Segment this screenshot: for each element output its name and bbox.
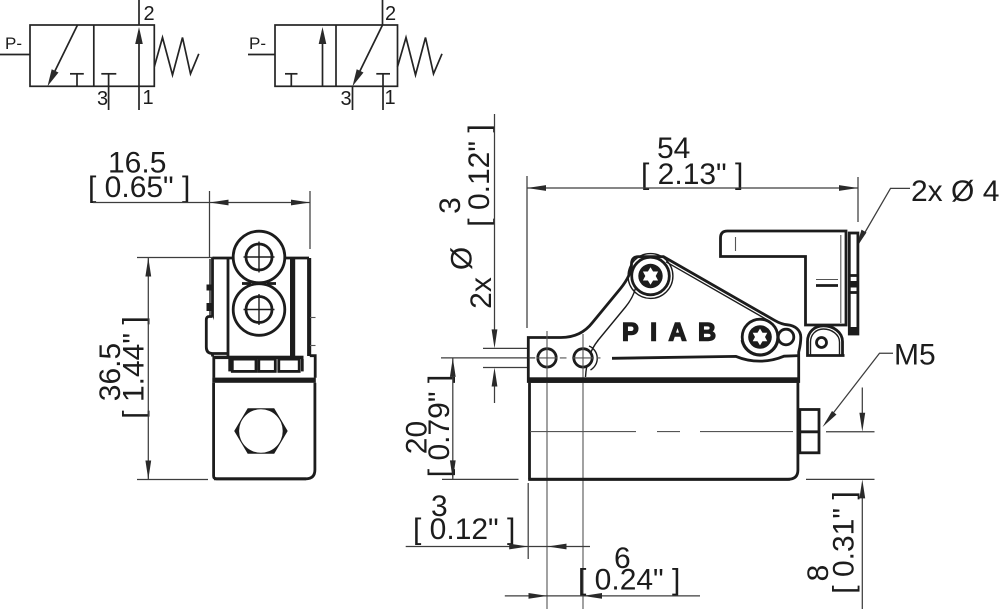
svg-text:P-: P- — [249, 34, 266, 53]
extension line 54 right — [857, 177, 859, 222]
spring — [398, 38, 443, 76]
wire P lead — [0, 54, 30, 56]
svg-text:3: 3 — [341, 88, 352, 110]
boss arc right screw — [741, 340, 778, 356]
svg-text:[ 0.31" ]: [ 0.31" ] — [828, 491, 861, 593]
foot hole — [817, 338, 827, 348]
svg-text:[ 0.65" ]: [ 0.65" ] — [88, 171, 190, 204]
right side tick A — [310, 317, 316, 319]
screw 1 inner circle — [246, 244, 272, 270]
lower block outline — [214, 383, 315, 479]
box A (top housing) — [721, 231, 847, 325]
hole 1 centerline vertical — [546, 331, 548, 609]
blocked port T (right cell) / port 1 — [376, 73, 390, 75]
screw circle 2 — [233, 284, 285, 336]
block centerline — [530, 431, 793, 433]
hole 2 centerline vertical — [582, 334, 584, 609]
lower block top band — [528, 377, 800, 383]
svg-text:[ 0.12" ]: [ 0.12" ] — [413, 513, 515, 546]
mounting foot (D shape) — [808, 326, 845, 356]
wire port 1 — [138, 86, 140, 110]
svg-text:Ø: Ø — [446, 247, 479, 270]
right edge lines — [307, 258, 309, 356]
wire P lead — [248, 54, 275, 56]
extension line bottom — [137, 479, 208, 481]
cell divider — [335, 25, 337, 86]
extension tangent bottom — [483, 367, 535, 369]
lower block top band — [212, 378, 315, 383]
svg-text:1: 1 — [143, 87, 154, 109]
cell divider — [93, 25, 95, 86]
bracket notch around hole — [589, 346, 597, 370]
box inner wall line — [840, 235, 842, 323]
Ø3 hole 1 — [538, 349, 556, 367]
inner flange line — [227, 259, 230, 357]
svg-text:1: 1 — [385, 87, 396, 109]
dim 20 line — [452, 358, 454, 480]
extension line top — [137, 257, 214, 259]
box tick — [735, 237, 737, 251]
feet band top bar — [213, 356, 304, 359]
extension line bottom-left — [442, 478, 519, 480]
extension M5 centerline — [826, 431, 875, 433]
screw 2 crosshair — [244, 309, 275, 311]
svg-text:2: 2 — [144, 3, 155, 25]
dim Ø3 line upper — [494, 114, 496, 331]
dim 6 line — [505, 595, 700, 597]
extension line right — [309, 191, 311, 249]
wire port 3 — [352, 86, 354, 110]
svg-text:2: 2 — [385, 3, 396, 25]
gap side lines — [212, 356, 215, 378]
valve body box V2 — [275, 25, 398, 86]
blocked port T (right cell) / port 3 — [101, 73, 116, 75]
flow arrow diagonal (right cell) — [357, 25, 383, 78]
svg-text:[ 1.44" ]: [ 1.44" ] — [118, 316, 151, 418]
valve body box V1 — [30, 25, 154, 86]
hex nut — [234, 408, 288, 453]
bracket inner left curve — [598, 268, 637, 341]
flow arrow up (left cell) — [322, 31, 324, 86]
svg-text:2x Ø 4: 2x Ø 4 — [911, 175, 999, 208]
feet band cells — [228, 359, 231, 371]
blocked port T (left cell) — [70, 73, 84, 75]
leader 2x Ø 4 — [859, 188, 911, 243]
extension line block edge — [527, 483, 529, 559]
extension line 54 left — [526, 176, 528, 328]
boss circle top screw — [628, 254, 673, 299]
right dark bar — [290, 259, 295, 357]
spring — [154, 38, 199, 76]
svg-text:M5: M5 — [894, 339, 936, 372]
svg-text:[ 0.12" ]: [ 0.12" ] — [463, 124, 496, 226]
dim 8 line — [861, 388, 863, 414]
connector bars between circles — [242, 282, 251, 285]
mounting plate (right) — [849, 233, 858, 334]
bracket inner diagonal — [666, 262, 770, 322]
screw 1 crosshair — [244, 256, 275, 258]
svg-text:2x: 2x — [465, 277, 498, 309]
dim 16.5 line — [93, 202, 310, 204]
body upper outline — [213, 257, 310, 260]
wire port 2 — [138, 0, 140, 25]
box = marks — [816, 279, 838, 281]
left nub A — [207, 285, 212, 291]
svg-text:P-: P- — [5, 34, 22, 53]
plate bottom cap — [849, 327, 858, 334]
lower-left tab — [206, 317, 227, 354]
dim 54 line — [527, 187, 858, 189]
flow arrow up (right cell) — [138, 31, 140, 86]
extension block bottom — [806, 478, 875, 480]
wire port 2 — [382, 0, 384, 25]
right screw T2 — [742, 319, 778, 355]
holes centerline horizontal — [529, 357, 536, 359]
Ø3 hole 2 — [574, 349, 592, 367]
extension line left — [209, 191, 211, 257]
cam circle — [778, 329, 794, 345]
svg-text:3: 3 — [97, 88, 108, 110]
extension centerline — [441, 357, 528, 359]
screw circle 1 — [233, 231, 285, 283]
dim Ø3 line lower — [494, 386, 496, 404]
svg-text:[ 0.24" ]: [ 0.24" ] — [578, 564, 680, 597]
flow arrow diagonal (left cell) — [52, 25, 78, 78]
dim 3 bottom line — [406, 546, 590, 548]
M5 port — [800, 410, 819, 453]
blocked port T (left cell) — [285, 73, 298, 75]
top screw T1 — [632, 257, 670, 295]
right side tick B — [310, 345, 316, 347]
plate clip — [849, 281, 859, 288]
leader M5 — [826, 353, 894, 423]
dim 36.5 line — [147, 258, 149, 480]
bracket outer outline — [528, 257, 801, 382]
svg-text:[ 2.13" ]: [ 2.13" ] — [641, 158, 743, 191]
extension tangent top — [483, 347, 535, 349]
lower block outline — [528, 383, 798, 480]
left nub B — [207, 303, 212, 311]
bracket bottom face edge — [612, 356, 799, 362]
svg-text:PIAB: PIAB — [622, 319, 722, 347]
plate divider a — [849, 274, 858, 277]
screw 2 inner circle — [246, 297, 272, 323]
